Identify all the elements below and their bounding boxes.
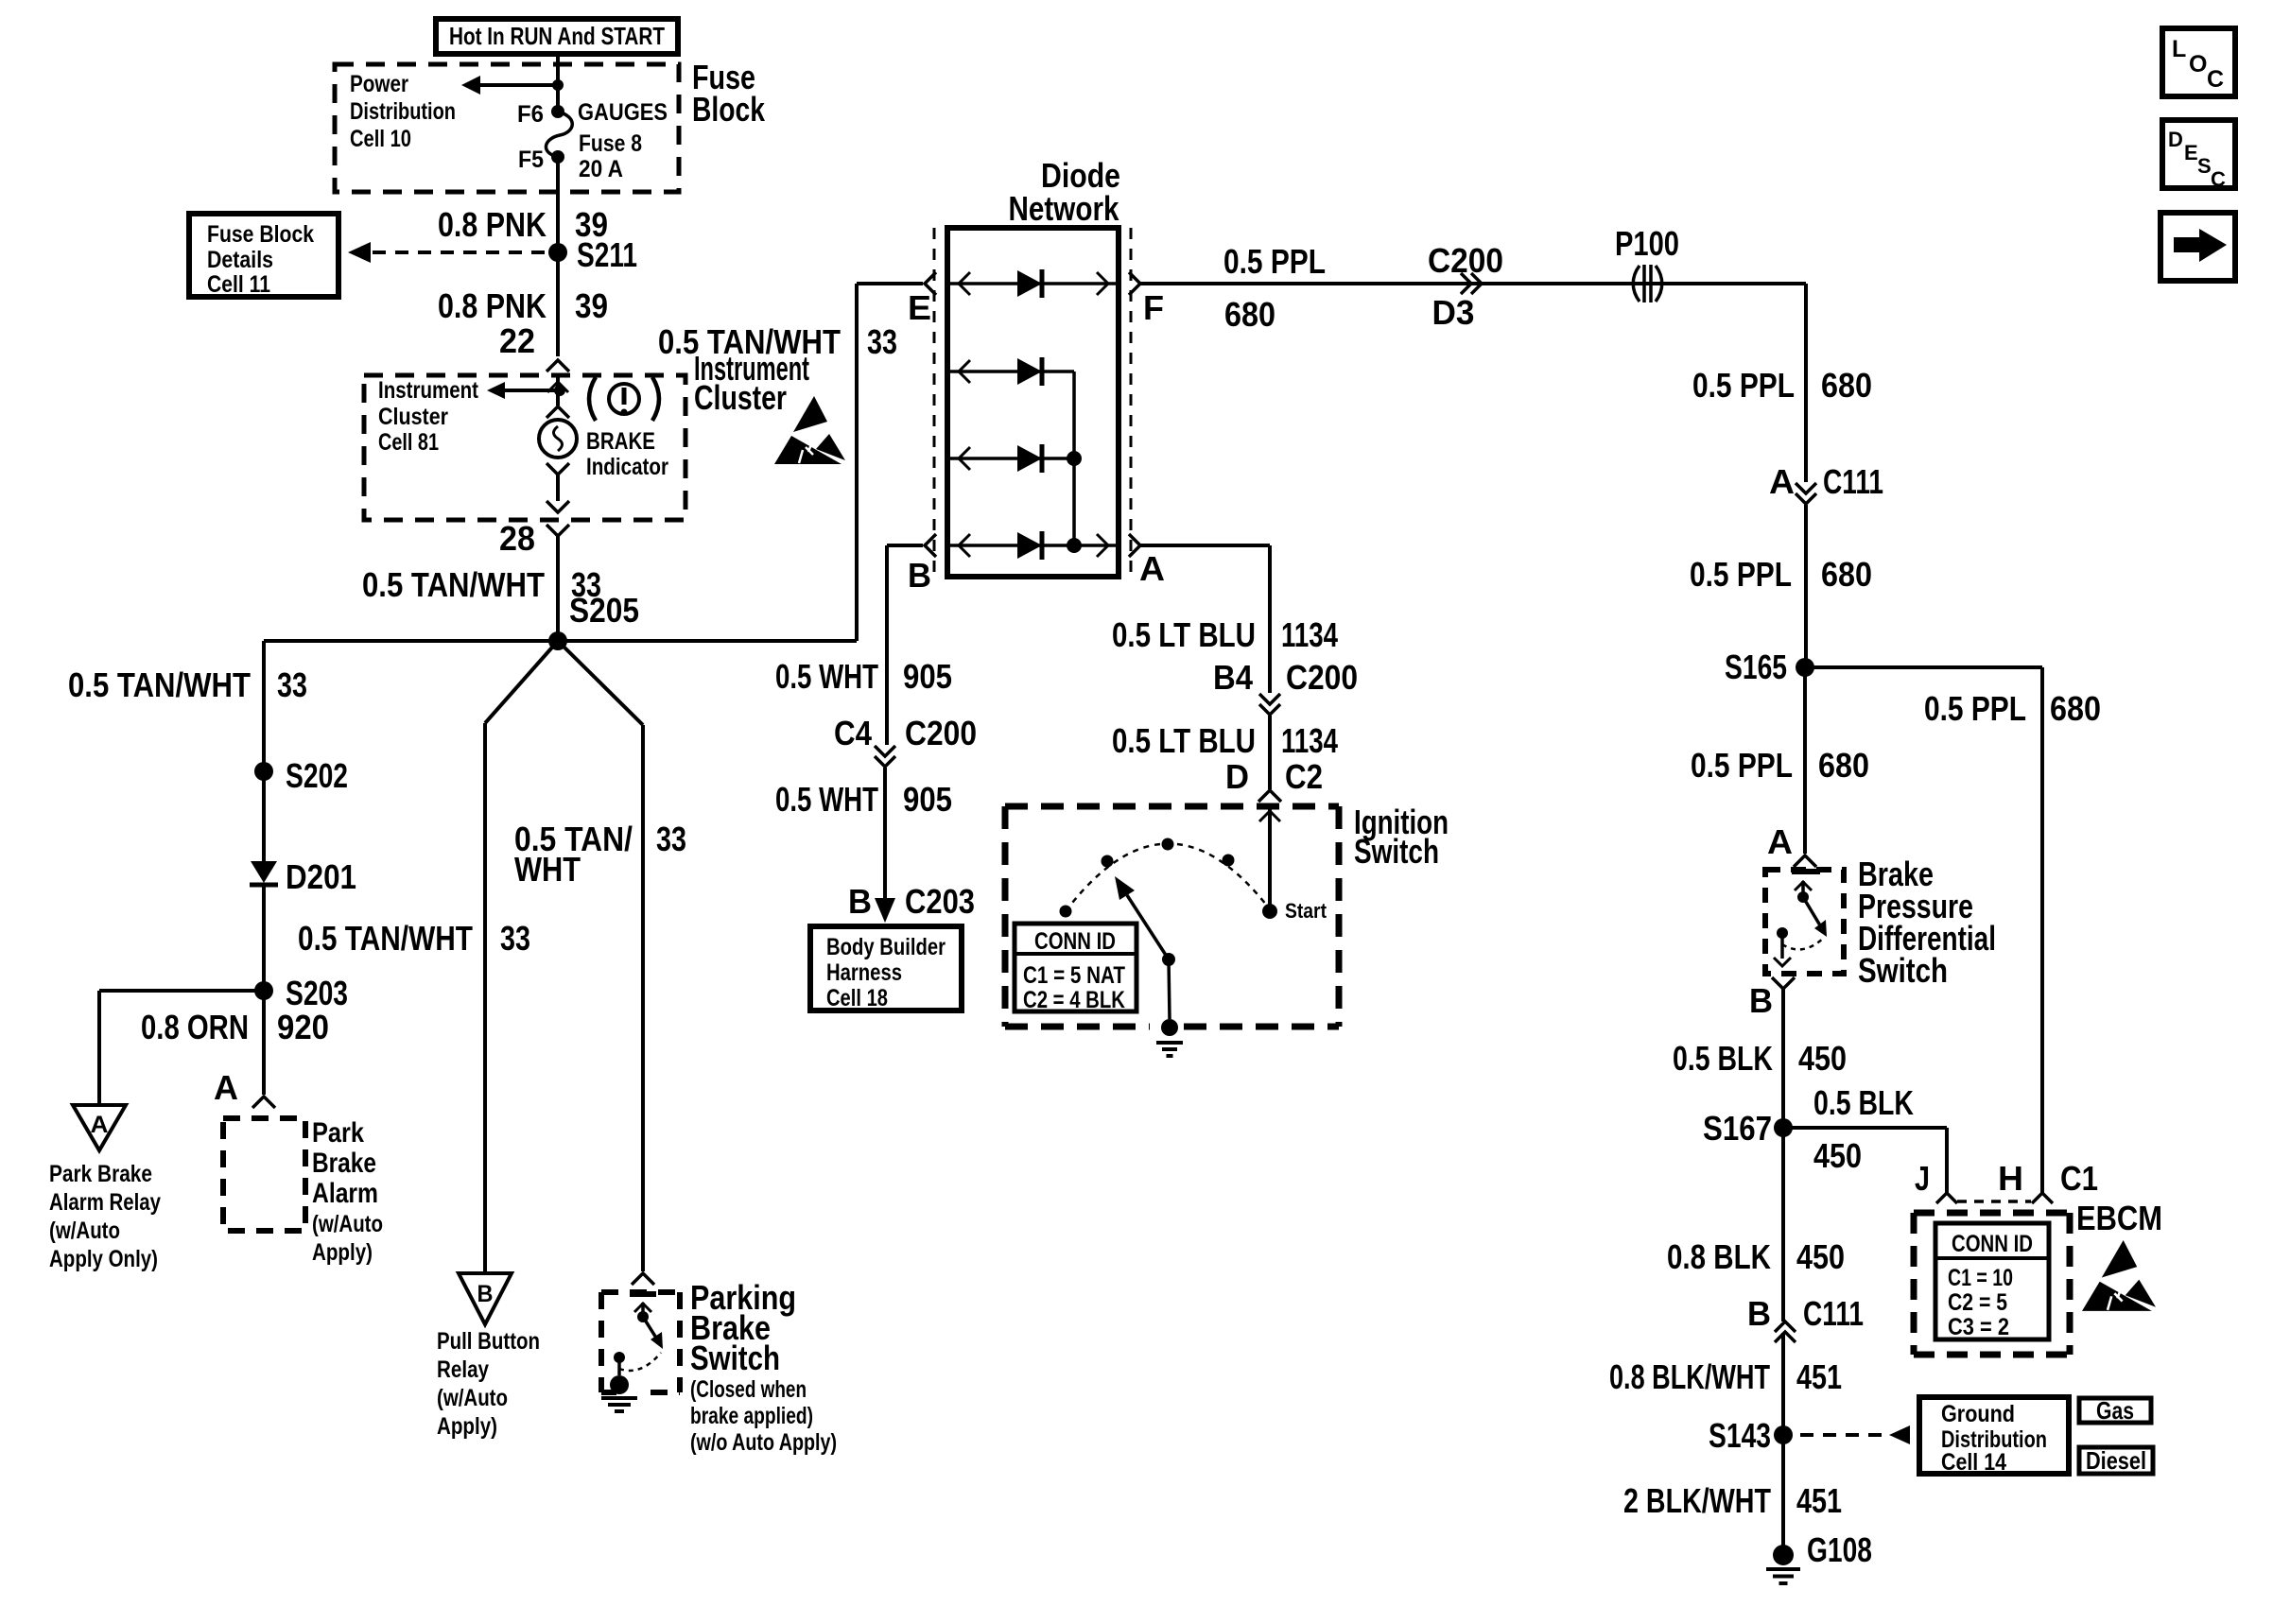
wire D201 to S203 bbox=[262, 885, 266, 991]
wire to ignition switch D bbox=[1268, 716, 1272, 789]
label C1 at EBCM bbox=[2060, 1159, 2098, 1198]
svg-text:CONN ID: CONN ID bbox=[1034, 928, 1116, 955]
diode D row 1 bbox=[1017, 269, 1042, 298]
parking brake switch contact bar bbox=[630, 1291, 656, 1297]
brake pressure switch contact bar bbox=[1792, 869, 1820, 874]
park brake alarm dashed box bbox=[223, 1118, 305, 1231]
svg-text:0.5 BLK: 0.5 BLK bbox=[1673, 1039, 1773, 1078]
svg-text:Park: Park bbox=[312, 1117, 364, 1149]
wire S203 down to park brake alarm bbox=[262, 991, 266, 1095]
svg-text:Alarm Relay: Alarm Relay bbox=[49, 1189, 161, 1216]
label Diode Network bbox=[1009, 156, 1121, 228]
svg-text:F6: F6 bbox=[517, 101, 544, 128]
ignition wire entering with arrowhead bbox=[1259, 806, 1280, 911]
diagonal wire S205 to parking brake switch branch bbox=[558, 641, 643, 1271]
text Instrument Cluster Cell 81 bbox=[378, 377, 479, 456]
wire S202 to D201 bbox=[262, 771, 266, 861]
connector B C203 with arrow bbox=[848, 882, 975, 923]
svg-text:D201: D201 bbox=[286, 857, 356, 896]
connector pin A at park brake alarm bbox=[214, 1068, 275, 1108]
splice node S202 bbox=[254, 756, 348, 795]
wire S167 down to C111 bbox=[1781, 1128, 1785, 1322]
svg-text:680: 680 bbox=[2050, 689, 2101, 728]
wire label 0.5 TAN/WHT 33 (left branch) bbox=[68, 665, 307, 704]
svg-text:P100: P100 bbox=[1615, 224, 1679, 263]
brake warning symbol ( ! ) bbox=[589, 377, 659, 421]
label GAUGES Fuse 8 20 A bbox=[578, 99, 668, 182]
ignition CONN ID box bbox=[1015, 924, 1136, 1013]
junction dot for instrument cluster arrow bbox=[554, 385, 565, 396]
svg-text:E: E bbox=[908, 288, 931, 327]
svg-text:450: 450 bbox=[1813, 1136, 1862, 1175]
svg-text:F5: F5 bbox=[518, 147, 544, 173]
fuse terminal F5 dot bbox=[518, 147, 564, 173]
wire label 0.5 PPL 680 (right branch) bbox=[1924, 689, 2101, 728]
dashed arrow from S211 to Fuse Block Details bbox=[348, 242, 547, 263]
svg-text:Cluster: Cluster bbox=[694, 378, 787, 417]
wire lamp down to cluster exit bbox=[547, 463, 569, 512]
ignition rotary dashed arc bbox=[1066, 843, 1270, 911]
brake pressure switch movable contact bbox=[1795, 881, 1827, 937]
splice node S203 bbox=[254, 974, 348, 1012]
connector B4 C200 bbox=[1213, 658, 1358, 715]
wire into cluster with up arrowhead bbox=[547, 375, 568, 406]
wire label 0.5 PPL 680 (above C111) bbox=[1692, 366, 1872, 405]
svg-text:C2: C2 bbox=[1285, 757, 1323, 796]
brake pressure differential switch dashed box bbox=[1765, 870, 1844, 974]
svg-text:C200: C200 bbox=[1286, 658, 1358, 697]
connector pin H at EBCM bbox=[1998, 1159, 2053, 1203]
wire S165 down to brake pressure switch bbox=[1803, 667, 1807, 854]
svg-text:Cell 14: Cell 14 bbox=[1941, 1449, 2006, 1476]
svg-text:Cell 81: Cell 81 bbox=[378, 429, 439, 456]
junction dot row 3 bbox=[1067, 451, 1082, 466]
svg-text:0.8 BLK/WHT: 0.8 BLK/WHT bbox=[1609, 1357, 1770, 1396]
svg-text:GAUGES: GAUGES bbox=[578, 99, 668, 126]
box Gas bbox=[2079, 1396, 2151, 1425]
label Start bbox=[1285, 899, 1327, 923]
legend box LOC bbox=[2162, 28, 2235, 96]
svg-text:0.5 LT BLU: 0.5 LT BLU bbox=[1112, 721, 1256, 760]
svg-text:Apply): Apply) bbox=[437, 1413, 497, 1440]
label Parking Brake Switch bbox=[690, 1278, 837, 1456]
wire label 0.8 PNK 39 (upper) bbox=[438, 205, 608, 244]
BRAKE indicator lamp symbol bbox=[539, 420, 577, 458]
connector B C111 (lower) bbox=[1747, 1294, 1864, 1342]
svg-text:H: H bbox=[1998, 1159, 2023, 1198]
svg-text:Distribution: Distribution bbox=[350, 98, 456, 125]
svg-text:680: 680 bbox=[1821, 555, 1872, 594]
svg-text:B: B bbox=[1747, 1294, 1771, 1333]
svg-text:C2 = 4 BLK: C2 = 4 BLK bbox=[1023, 987, 1125, 1013]
wire to B C203 bbox=[883, 768, 887, 906]
svg-text:Pull Button: Pull Button bbox=[437, 1328, 540, 1355]
box Body Builder Harness Cell 18 bbox=[810, 926, 962, 1011]
EBCM CONN ID box bbox=[1935, 1223, 2049, 1340]
diode row 3 wire bbox=[950, 447, 1074, 470]
svg-text:39: 39 bbox=[575, 286, 608, 325]
svg-text:S205: S205 bbox=[569, 591, 639, 630]
ESD symbol at EBCM bbox=[2082, 1240, 2156, 1311]
connector pin A diode network bbox=[1129, 534, 1165, 588]
wire diode F right to P100 bbox=[1140, 282, 1806, 285]
diode D row 3 bbox=[1017, 444, 1042, 473]
legend box DESC bbox=[2162, 120, 2235, 191]
wire label 0.5 TAN/WHT 33 at E bbox=[658, 322, 897, 361]
wire S165 right branch to EBCM H bbox=[1805, 667, 2042, 1193]
fuse terminal F6 dot bbox=[517, 101, 564, 128]
svg-text:0.5 TAN/WHT: 0.5 TAN/WHT bbox=[68, 665, 251, 704]
diode network left dashed connector line bbox=[933, 228, 936, 577]
svg-text:0.5 PPL: 0.5 PPL bbox=[1691, 746, 1793, 785]
svg-text:Fuse 8: Fuse 8 bbox=[579, 130, 642, 157]
svg-text:C111: C111 bbox=[1803, 1294, 1864, 1333]
svg-text:C200: C200 bbox=[905, 714, 977, 752]
connector pin B diode network bbox=[908, 534, 936, 595]
ignition switch dashed box bbox=[1005, 806, 1339, 1027]
svg-text:Fuse Block: Fuse Block bbox=[207, 221, 314, 248]
svg-text:0.5 PPL: 0.5 PPL bbox=[1924, 689, 2026, 728]
parking brake switch ground bbox=[601, 1375, 637, 1411]
label Fuse Block bbox=[692, 58, 766, 129]
svg-text:0.5 TAN/WHT: 0.5 TAN/WHT bbox=[298, 919, 473, 958]
wire label 0.5 TAN/WHT 33 (between branches) bbox=[298, 919, 530, 958]
svg-text:Start: Start bbox=[1285, 899, 1327, 923]
svg-text:C3 = 2: C3 = 2 bbox=[1948, 1314, 2009, 1340]
svg-text:G108: G108 bbox=[1807, 1530, 1872, 1569]
svg-text:0.5 PPL: 0.5 PPL bbox=[1223, 242, 1326, 281]
wire S143 to G108 bbox=[1781, 1435, 1785, 1555]
svg-text:C1 = 10: C1 = 10 bbox=[1948, 1265, 2013, 1291]
svg-text:0.5 TAN/WHT: 0.5 TAN/WHT bbox=[362, 565, 545, 604]
parking brake switch movable contact bbox=[634, 1303, 663, 1349]
svg-text:C203: C203 bbox=[905, 882, 975, 921]
svg-text:Switch: Switch bbox=[1858, 951, 1948, 990]
text Pull Button Relay (w/Auto Apply) bbox=[437, 1328, 540, 1440]
wire C111 to S143 bbox=[1781, 1333, 1785, 1435]
svg-text:0.5 LT BLU: 0.5 LT BLU bbox=[1112, 615, 1256, 654]
svg-text:A: A bbox=[214, 1068, 238, 1107]
svg-text:Indicator: Indicator bbox=[586, 454, 668, 480]
svg-text:451: 451 bbox=[1796, 1357, 1842, 1396]
wire C111 to S165 bbox=[1804, 505, 1808, 667]
wire brake pressure switch B to S167 bbox=[1781, 989, 1785, 1128]
brake pressure switch dashed arc bbox=[1782, 937, 1825, 949]
svg-text:C1 = 5 NAT: C1 = 5 NAT bbox=[1023, 962, 1125, 989]
svg-text:(Closed when: (Closed when bbox=[690, 1376, 807, 1403]
splice node S205 bbox=[548, 591, 639, 650]
svg-text:Relay: Relay bbox=[437, 1356, 489, 1383]
diode row 2 wire bbox=[950, 360, 1074, 545]
svg-text:905: 905 bbox=[903, 780, 952, 819]
label EBCM bbox=[2076, 1199, 2162, 1237]
diagonal wire S205 to pull button relay branch bbox=[485, 641, 558, 1273]
svg-text:(w/Auto: (w/Auto bbox=[437, 1385, 508, 1411]
ignition wiper arrow bbox=[1115, 876, 1175, 966]
svg-text:CONN ID: CONN ID bbox=[1952, 1231, 2033, 1257]
svg-text:S211: S211 bbox=[577, 235, 637, 274]
svg-text:0.5 WHT: 0.5 WHT bbox=[775, 657, 878, 696]
svg-text:0.5 TAN/WHT: 0.5 TAN/WHT bbox=[658, 322, 841, 361]
svg-text:EBCM: EBCM bbox=[2076, 1199, 2162, 1237]
splice node S211 bbox=[548, 235, 637, 274]
power label box: Hot In RUN And START bbox=[436, 19, 678, 54]
svg-text:33: 33 bbox=[867, 322, 897, 361]
legend box arrow bbox=[2160, 213, 2235, 281]
svg-text:Block: Block bbox=[692, 90, 766, 129]
svg-text:WHT: WHT bbox=[514, 850, 581, 889]
wire label 0.8 BLK 450 bbox=[1667, 1237, 1845, 1276]
ignition wiper to ground bbox=[1169, 959, 1170, 1019]
svg-text:33: 33 bbox=[500, 919, 530, 958]
wire label 0.5 LT BLU 1134 (lower) bbox=[1112, 721, 1338, 760]
svg-text:S202: S202 bbox=[286, 756, 348, 795]
arrow to Instrument Cluster text bbox=[487, 382, 558, 399]
svg-text:B: B bbox=[908, 556, 931, 595]
label Park Brake Alarm (w/Auto Apply) bbox=[312, 1117, 383, 1266]
svg-text:33: 33 bbox=[277, 665, 307, 704]
box Fuse Block Details Cell 11 bbox=[189, 214, 338, 298]
diode D201 bbox=[250, 857, 356, 896]
wire S167 branch right to EBCM J bbox=[1783, 1128, 1947, 1193]
fuse block dashed box bbox=[335, 64, 679, 192]
connector pin 22 into instrument cluster bbox=[499, 321, 569, 371]
connector C4 C200 bbox=[834, 714, 977, 767]
connector pin A at brake pressure switch bbox=[1767, 822, 1816, 867]
svg-text:Diesel: Diesel bbox=[2086, 1446, 2146, 1475]
svg-text:0.5 BLK: 0.5 BLK bbox=[1813, 1083, 1914, 1122]
svg-text:S: S bbox=[2197, 154, 2212, 178]
svg-text:Cell 11: Cell 11 bbox=[207, 271, 270, 298]
svg-text:C: C bbox=[2207, 66, 2224, 93]
wire label 0.5 TAN/ WHT 33 (two-line) bbox=[514, 820, 686, 889]
junction dot in fuse block bbox=[552, 79, 564, 91]
svg-text:Cluster: Cluster bbox=[378, 404, 448, 430]
text Park Brake Alarm Relay (w/Auto Apply Only) bbox=[49, 1161, 161, 1272]
wire S211 down to instrument cluster bbox=[556, 252, 560, 356]
wire label 0.5 BLK 450 bbox=[1673, 1039, 1847, 1078]
svg-text:D: D bbox=[1225, 757, 1249, 796]
wire cluster to S205 bbox=[556, 536, 560, 641]
svg-text:(w/o Auto Apply): (w/o Auto Apply) bbox=[690, 1429, 837, 1456]
svg-text:920: 920 bbox=[277, 1008, 329, 1046]
svg-text:1134: 1134 bbox=[1281, 615, 1338, 654]
svg-text:905: 905 bbox=[903, 657, 952, 696]
connector C200 D3 bbox=[1428, 241, 1503, 332]
wire label 0.5 WHT 905 (lower) bbox=[775, 780, 952, 819]
connector D C2 bbox=[1225, 757, 1323, 802]
ESD symbol at instrument cluster bbox=[774, 396, 845, 464]
svg-text:Instrument: Instrument bbox=[378, 377, 479, 404]
svg-text:Gas: Gas bbox=[2096, 1396, 2134, 1425]
wire label 0.8 ORN 920 bbox=[141, 1008, 329, 1046]
svg-text:A: A bbox=[1139, 549, 1165, 588]
label Brake Pressure Differential Switch bbox=[1858, 855, 1996, 990]
svg-text:C2 = 5: C2 = 5 bbox=[1948, 1289, 2007, 1316]
svg-text:Body Builder: Body Builder bbox=[826, 934, 946, 960]
junction dot row 4 bbox=[1067, 538, 1082, 553]
connector A C111 bbox=[1769, 462, 1883, 504]
wire label 0.5 TAN/WHT 33 (cluster to S205) bbox=[362, 565, 601, 604]
svg-text:Apply): Apply) bbox=[312, 1239, 373, 1266]
svg-text:680: 680 bbox=[1818, 746, 1869, 785]
svg-text:0.8 ORN: 0.8 ORN bbox=[141, 1008, 249, 1046]
svg-text:C1: C1 bbox=[2060, 1159, 2098, 1198]
parking brake switch dashed arc bbox=[619, 1353, 661, 1371]
svg-text:Park Brake: Park Brake bbox=[49, 1161, 152, 1187]
wire label 0.8 PNK 39 (lower) bbox=[438, 286, 608, 325]
svg-text:C111: C111 bbox=[1823, 462, 1883, 501]
svg-text:(w/Auto: (w/Auto bbox=[49, 1218, 120, 1244]
splice node S167 bbox=[1703, 1109, 1793, 1148]
svg-text:O: O bbox=[2189, 51, 2207, 78]
parking brake switch dashed box bbox=[601, 1292, 680, 1392]
label Instrument Cluster (component) bbox=[694, 349, 809, 417]
svg-text:brake applied): brake applied) bbox=[690, 1403, 813, 1429]
wire P100 corner down to C111 bbox=[1804, 284, 1808, 482]
svg-text:Network: Network bbox=[1009, 189, 1120, 228]
svg-text:Switch: Switch bbox=[1354, 832, 1439, 871]
svg-text:E: E bbox=[2184, 141, 2198, 164]
ignition arc contact dots bbox=[1060, 838, 1235, 918]
wire F5 to S211 bbox=[556, 157, 560, 252]
off-page triangle A (park brake alarm relay) bbox=[73, 1105, 126, 1150]
svg-text:B4: B4 bbox=[1213, 658, 1253, 697]
parking brake switch fixed contact bbox=[614, 1352, 625, 1375]
svg-text:Apply Only): Apply Only) bbox=[49, 1246, 158, 1272]
svg-text:Alarm: Alarm bbox=[312, 1178, 378, 1209]
connector pin B below brake pressure switch bbox=[1749, 977, 1795, 1020]
svg-text:A: A bbox=[91, 1112, 109, 1138]
svg-text:0.8 BLK: 0.8 BLK bbox=[1667, 1237, 1771, 1276]
svg-text:(w/Auto: (w/Auto bbox=[312, 1211, 383, 1237]
svg-text:B: B bbox=[848, 882, 872, 921]
svg-text:BRAKE: BRAKE bbox=[586, 428, 655, 455]
svg-text:D3: D3 bbox=[1432, 293, 1475, 332]
wire label 0.5 PPL 680 (F row) bbox=[1223, 242, 1326, 334]
svg-text:0.5 WHT: 0.5 WHT bbox=[775, 780, 878, 819]
svg-text:0.5 PPL: 0.5 PPL bbox=[1692, 366, 1795, 405]
wire label 0.5 BLK over branch bbox=[1813, 1083, 1914, 1122]
wire label 450 under branch bbox=[1813, 1136, 1862, 1175]
label BRAKE Indicator bbox=[586, 428, 668, 480]
wire S205 left then down to S202 bbox=[264, 641, 558, 771]
svg-text:451: 451 bbox=[1796, 1481, 1842, 1520]
splice node S143 bbox=[1709, 1416, 1793, 1455]
svg-text:0.8 PNK: 0.8 PNK bbox=[438, 205, 547, 244]
svg-text:22: 22 bbox=[499, 321, 535, 360]
wire S205 right and up to diode network E bbox=[558, 284, 923, 641]
svg-text:Brake: Brake bbox=[312, 1148, 376, 1179]
svg-text:L: L bbox=[2172, 36, 2186, 62]
diode network box bbox=[947, 228, 1119, 577]
wire junction to fuse F6 bbox=[556, 85, 560, 112]
ground G108 bbox=[1766, 1530, 1872, 1583]
svg-text:B: B bbox=[477, 1281, 494, 1307]
svg-text:A: A bbox=[1769, 462, 1795, 501]
ignition ground bbox=[1156, 1019, 1183, 1056]
off-page triangle B (pull button relay) bbox=[459, 1273, 512, 1324]
box Ground Distribution Cell 14 bbox=[1919, 1397, 2069, 1476]
wire label 2 BLK/WHT 451 bbox=[1623, 1481, 1842, 1520]
svg-text:28: 28 bbox=[499, 519, 535, 558]
svg-text:20 A: 20 A bbox=[579, 156, 623, 182]
connector pin F bbox=[1129, 272, 1164, 327]
svg-text:450: 450 bbox=[1798, 1039, 1847, 1078]
EBCM dashed box bbox=[1914, 1213, 2070, 1355]
svg-text:A: A bbox=[1767, 822, 1793, 861]
box Diesel bbox=[2079, 1446, 2153, 1475]
diode network right dashed connector line bbox=[1130, 228, 1133, 577]
svg-text:S143: S143 bbox=[1709, 1416, 1771, 1455]
svg-text:Details: Details bbox=[207, 247, 273, 273]
svg-text:680: 680 bbox=[1821, 366, 1872, 405]
svg-text:S165: S165 bbox=[1725, 648, 1787, 686]
instrument cluster dashed box bbox=[364, 375, 685, 520]
wire label 0.5 PPL 680 (above switch A) bbox=[1691, 746, 1869, 785]
svg-text:F: F bbox=[1143, 288, 1164, 327]
svg-text:0.5 PPL: 0.5 PPL bbox=[1690, 555, 1792, 594]
diode row 1 wire bbox=[950, 272, 1116, 295]
svg-text:Cell 18: Cell 18 bbox=[826, 985, 888, 1011]
diode D row 2 bbox=[1017, 357, 1042, 386]
svg-text:Hot In RUN And START: Hot In RUN And START bbox=[449, 22, 665, 50]
svg-text:1134: 1134 bbox=[1281, 721, 1338, 760]
svg-text:450: 450 bbox=[1796, 1237, 1845, 1276]
wire label 0.8 BLK/WHT 451 bbox=[1609, 1357, 1842, 1396]
svg-text:C: C bbox=[2211, 167, 2226, 191]
svg-text:C200: C200 bbox=[1428, 241, 1503, 280]
wire diode A right and down to ignition switch bbox=[1140, 545, 1270, 693]
svg-text:2 BLK/WHT: 2 BLK/WHT bbox=[1623, 1481, 1771, 1520]
svg-text:0.8 PNK: 0.8 PNK bbox=[438, 286, 547, 325]
connector chevron above lamp bbox=[547, 406, 569, 418]
connector pin J at EBCM bbox=[1915, 1159, 1957, 1203]
svg-text:33: 33 bbox=[656, 820, 686, 858]
svg-text:S203: S203 bbox=[286, 974, 348, 1012]
wire label 0.5 PPL 680 (above S165) bbox=[1690, 555, 1872, 594]
svg-text:Switch: Switch bbox=[690, 1339, 780, 1377]
svg-text:Cell 10: Cell 10 bbox=[350, 126, 411, 152]
svg-text:D: D bbox=[2168, 128, 2183, 151]
svg-text:B: B bbox=[1749, 981, 1773, 1020]
svg-text:680: 680 bbox=[1224, 295, 1275, 334]
dashed arrow S143 to ground distribution bbox=[1800, 1425, 1910, 1444]
wire diode B to body builder harness bbox=[887, 545, 923, 745]
connector pin 28 below cluster bbox=[499, 519, 569, 558]
wire S203 left to park brake alarm relay triangle bbox=[99, 991, 264, 1105]
brake pressure switch fixed contact bbox=[1774, 927, 1791, 966]
wire label 0.5 LT BLU 1134 (upper) bbox=[1112, 615, 1338, 654]
text Power Distribution Cell 10 bbox=[350, 71, 456, 152]
svg-text:Harness: Harness bbox=[826, 959, 902, 986]
diode row 4 wire bbox=[950, 534, 1116, 557]
svg-text:Ground: Ground bbox=[1941, 1401, 2015, 1427]
svg-text:Power: Power bbox=[350, 71, 408, 97]
label Ignition Switch bbox=[1354, 803, 1449, 871]
wire label 0.5 WHT 905 (upper) bbox=[775, 657, 952, 696]
diode D row 4 bbox=[1017, 531, 1042, 560]
wire from Hot In RUN And START into fuse block bbox=[556, 54, 560, 87]
svg-text:C4: C4 bbox=[834, 714, 872, 752]
fuse element curve bbox=[546, 112, 572, 157]
EBCM connector dashed line between J and H bbox=[1957, 1200, 2031, 1203]
connector pin at parking brake switch bbox=[632, 1273, 654, 1285]
splice node S165 bbox=[1725, 648, 1814, 686]
ignition switch start contact dot bbox=[1262, 904, 1277, 919]
connector pin E bbox=[908, 272, 936, 327]
svg-text:J: J bbox=[1915, 1159, 1930, 1198]
